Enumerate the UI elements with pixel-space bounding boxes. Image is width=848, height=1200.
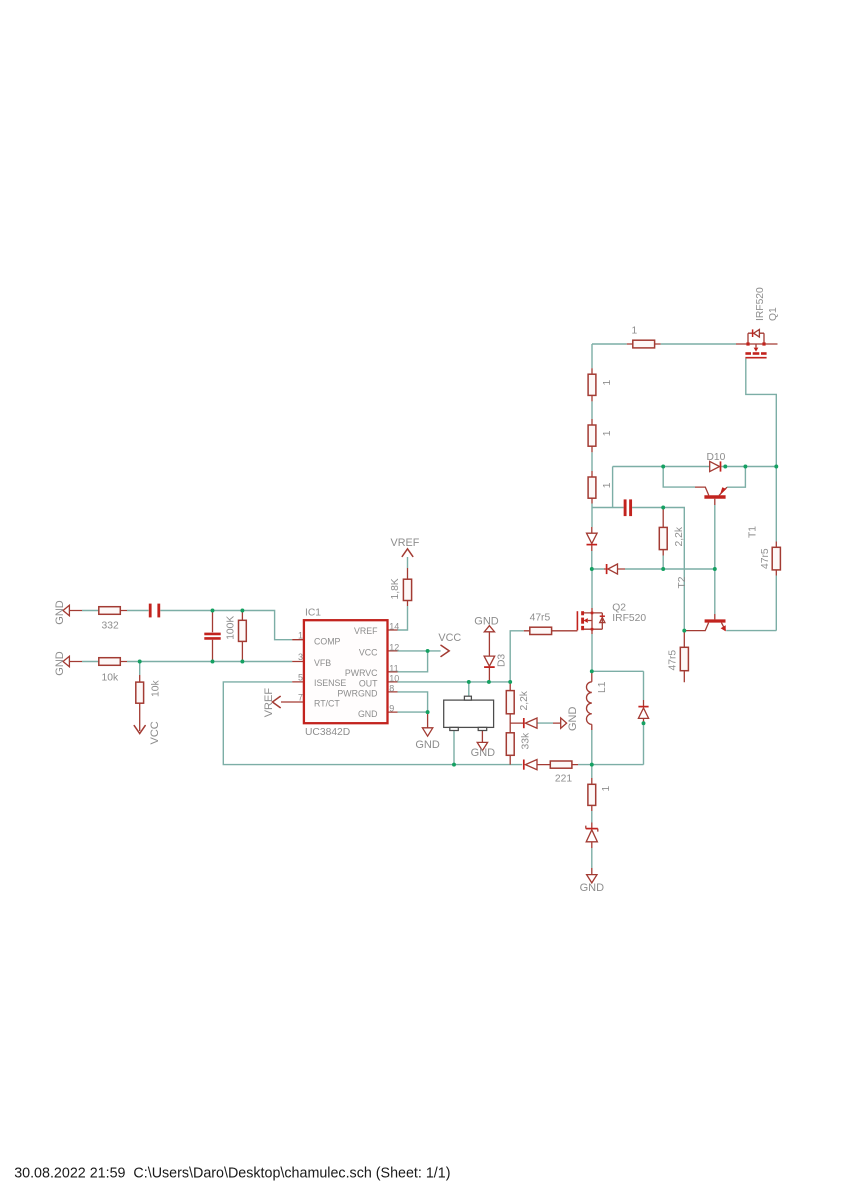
svg-text:33k: 33k — [520, 732, 531, 749]
svg-text:Q1: Q1 — [768, 307, 779, 321]
svg-text:UC3842D: UC3842D — [305, 727, 350, 738]
svg-text:VREF: VREF — [391, 537, 420, 549]
svg-text:T1: T1 — [748, 526, 759, 538]
svg-text:332: 332 — [102, 621, 119, 632]
svg-text:GND: GND — [54, 600, 66, 625]
svg-text:PWRGND: PWRGND — [337, 689, 377, 699]
svg-text:9: 9 — [389, 704, 394, 714]
svg-text:COMP: COMP — [314, 636, 341, 646]
svg-text:2,2k: 2,2k — [519, 690, 530, 710]
svg-text:8: 8 — [389, 684, 394, 694]
svg-text:221: 221 — [555, 774, 572, 785]
svg-text:10k: 10k — [151, 680, 162, 697]
svg-text:GND: GND — [580, 882, 605, 894]
svg-text:VCC: VCC — [438, 632, 461, 644]
svg-text:VREF: VREF — [263, 688, 275, 718]
svg-text:12: 12 — [389, 643, 399, 653]
svg-text:OUT: OUT — [359, 678, 378, 688]
svg-text:GND: GND — [567, 707, 579, 732]
svg-text:IC1: IC1 — [305, 608, 321, 619]
svg-text:PWRVC: PWRVC — [345, 668, 378, 678]
svg-text:VCC: VCC — [359, 648, 378, 658]
svg-text:7: 7 — [298, 693, 303, 703]
svg-text:GND: GND — [471, 747, 496, 759]
svg-text:1: 1 — [602, 482, 613, 488]
svg-text:RT/CT: RT/CT — [314, 698, 340, 708]
svg-text:VCC: VCC — [149, 721, 161, 744]
svg-text:30.08.2022 21:59 C:\Users\Dar: 30.08.2022 21:59 C:\Users\Daro\Desktop\c… — [14, 1166, 450, 1182]
svg-text:11: 11 — [389, 663, 398, 673]
svg-text:IRF520: IRF520 — [612, 613, 646, 624]
svg-text:47r5: 47r5 — [667, 650, 678, 671]
svg-text:D10: D10 — [707, 452, 726, 463]
svg-text:1: 1 — [601, 786, 612, 792]
svg-text:1: 1 — [298, 630, 303, 640]
svg-text:ISENSE: ISENSE — [314, 678, 346, 688]
svg-text:GND: GND — [415, 739, 440, 751]
svg-text:14: 14 — [389, 622, 399, 632]
svg-text:5: 5 — [298, 673, 303, 683]
svg-text:T2: T2 — [677, 576, 688, 588]
svg-text:10: 10 — [389, 674, 399, 684]
svg-text:IRF520: IRF520 — [755, 287, 766, 321]
svg-text:L1: L1 — [597, 681, 608, 693]
svg-text:100K: 100K — [225, 616, 236, 640]
svg-text:47r5: 47r5 — [760, 548, 771, 569]
svg-text:47r5: 47r5 — [530, 613, 551, 624]
svg-text:GND: GND — [54, 651, 66, 676]
svg-text:VFB: VFB — [314, 658, 331, 668]
svg-text:1: 1 — [602, 380, 613, 386]
svg-text:1: 1 — [632, 326, 638, 337]
svg-text:VREF: VREF — [354, 626, 378, 636]
svg-text:D3: D3 — [496, 654, 507, 667]
svg-text:10k: 10k — [102, 673, 119, 684]
svg-text:GND: GND — [358, 709, 378, 719]
svg-text:1,8K: 1,8K — [390, 578, 401, 599]
svg-text:1: 1 — [602, 430, 613, 436]
svg-text:3: 3 — [298, 652, 303, 662]
svg-text:2,2k: 2,2k — [674, 526, 685, 546]
svg-text:GND: GND — [474, 616, 499, 628]
